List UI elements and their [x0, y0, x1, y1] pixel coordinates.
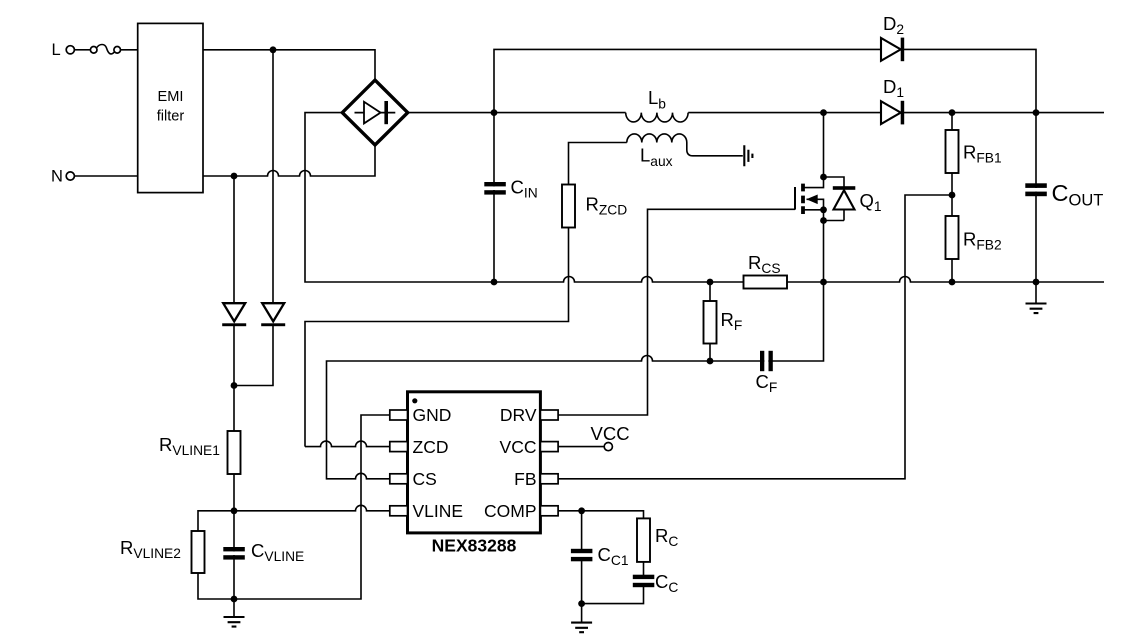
capacitor CVLINE: [222, 552, 246, 556]
wire RF branch: [709, 282, 711, 361]
wire Q1 source to bottom rail: [823, 210, 825, 282]
wire GND pin dropper to ground node: [234, 415, 390, 599]
wire GND node to ground: [233, 599, 235, 617]
fuse circle left: [90, 47, 97, 54]
node Q1 diode anode: [820, 217, 827, 224]
svg-text:VLINE: VLINE: [413, 501, 464, 521]
pin VLINE stub: [390, 506, 408, 516]
inductor Laux arcs: [627, 134, 687, 143]
wire FB net: pin right riser up to divider tap: [558, 195, 952, 479]
diode D2: [881, 38, 901, 61]
wire RVLINE2 branch: [198, 511, 234, 599]
pin CS stub: [390, 474, 408, 484]
svg-text:NEX83288: NEX83288: [432, 536, 517, 556]
svg-text:DRV: DRV: [500, 405, 537, 425]
ground (center, under CC1): [571, 623, 592, 633]
wire bridge right corner to DC rail: [407, 112, 625, 114]
capacitor CC: [642, 579, 646, 585]
wire CIN riser and top DC rail through D2: [494, 49, 1036, 112]
wire diode cathodes join: [234, 324, 273, 386]
mosfet Q1 body diode bar: [833, 186, 856, 190]
node CVLINE bottom ground: [231, 596, 238, 603]
wire Q1 source lead: [803, 209, 824, 211]
bridge inner diode line: [355, 112, 396, 114]
wire N dropper to diode anode: [233, 176, 235, 303]
node L-EMI junction: [270, 46, 277, 53]
pin ZCD stub: [390, 442, 408, 452]
svg-text:CS: CS: [413, 469, 437, 489]
node VLINE: [231, 507, 238, 514]
svg-text:filter: filter: [157, 108, 185, 124]
bridge inner diode bar: [384, 101, 388, 124]
resistor RFB2: [946, 216, 959, 259]
node D2 rail-COUT top: [1033, 109, 1040, 116]
resistor RVLINE2: [192, 531, 205, 573]
node Q1 source on rail: [820, 279, 827, 286]
wire N terminal to EMI filter: [75, 175, 138, 177]
resistor RCS: [744, 276, 788, 289]
inductor Lb arcs: [626, 113, 688, 122]
wire CS net: pin to riser to RF bottom and CF: [327, 282, 824, 479]
wire COUT branch: [1035, 113, 1037, 282]
wire CIN vertical: [493, 113, 495, 282]
mosfet Q1 body diode triangle: [834, 190, 855, 209]
bridge rectifier diamond: [342, 80, 407, 145]
ground (right, under COUT): [1026, 304, 1047, 314]
wire COUT ground lead: [1035, 282, 1037, 304]
node D1-RFB1: [949, 109, 956, 116]
IC pin1 dot: [412, 398, 417, 403]
pin COMP stub: [540, 506, 558, 516]
node N-EMI junction: [231, 173, 238, 180]
wire RC CC branch down and to ground node: [582, 518, 644, 622]
EMI filter box: [138, 23, 203, 192]
wire Q1 body lead: [807, 199, 824, 210]
chassis ground after Laux: [744, 145, 752, 166]
capacitor CF: [764, 352, 768, 370]
mosfet Q1 gate bar: [794, 187, 796, 210]
wire bridge left corner to bottom rail with hops: [305, 113, 1104, 282]
node bridge output / CIN top: [491, 109, 498, 116]
svg-text:EMI: EMI: [158, 89, 184, 105]
node Lb-D1-Q1 drain: [820, 109, 827, 116]
node Q1 source lead: [820, 206, 827, 213]
svg-text:GND: GND: [413, 405, 452, 425]
wire VCC pin to terminal: [558, 446, 604, 448]
resistor RC: [637, 518, 650, 562]
node FB divider tap: [949, 192, 956, 199]
svg-text:ZCD: ZCD: [413, 437, 449, 457]
pin DRV stub: [540, 410, 558, 420]
diode DN1 (left, down): [223, 303, 245, 321]
capacitor CIN: [486, 187, 504, 191]
wire N rail with hops to bridge bottom: [203, 145, 375, 176]
resistor RFB1: [946, 130, 959, 173]
pin FB stub: [540, 474, 558, 484]
wire CC1 branch: [581, 511, 583, 604]
terminal N: [66, 172, 74, 180]
wire L rail from EMI filter to bridge top: [203, 50, 375, 81]
wire Q1 drain riser: [823, 113, 825, 177]
svg-text:VCC: VCC: [500, 437, 537, 457]
svg-text:L: L: [52, 41, 61, 59]
wire fuse to EMI filter: [121, 49, 138, 51]
wire VLINE pin to node: [234, 505, 390, 511]
diode DN2 (right, down): [262, 303, 284, 321]
fuse F1 s-curve: [97, 45, 114, 54]
capacitor COUT: [1027, 188, 1045, 192]
resistor RF: [704, 301, 717, 344]
wire RFB1 branch: [951, 113, 953, 195]
node RF bottom CF: [707, 358, 714, 365]
terminal VCC circle: [604, 443, 612, 451]
wire DC rail after Lb: [688, 112, 1104, 114]
wire L dropper to diode anode: [272, 50, 274, 303]
wire Q1 drain to body diode top: [824, 177, 845, 187]
IC U1 NEX83288 body: [408, 392, 541, 533]
pin GND stub: [390, 410, 408, 420]
mosfet Q1 body arrow: [806, 195, 817, 205]
mosfet Q1 channel segments: [801, 184, 805, 214]
resistor RZCD: [562, 185, 575, 228]
wire L terminal to fuse: [75, 49, 91, 51]
node RF top on rail: [707, 279, 714, 286]
node Q1 drain-diode: [820, 174, 827, 181]
capacitor CC1: [580, 553, 584, 559]
node CIN bottom: [491, 279, 498, 286]
IC pin labels: [413, 405, 537, 521]
node RFB2 bottom on rail: [949, 279, 956, 286]
wire Q1 body diode anode: [824, 210, 845, 221]
node CC1 bottom ground: [578, 600, 585, 607]
svg-text:FB: FB: [514, 469, 536, 489]
diode D1: [881, 101, 901, 124]
pin VCC stub: [540, 442, 558, 452]
fuse circle right: [114, 47, 121, 54]
wire VLINE node through RVLINE1: [233, 386, 235, 511]
terminal L: [66, 46, 74, 54]
bridge inner diode triangle: [364, 102, 381, 124]
wire COMP net: [558, 511, 644, 519]
svg-text:VCC: VCC: [591, 423, 630, 444]
node diode join VLINE1 top: [231, 382, 238, 389]
wire gate from DRV pin: [558, 209, 795, 415]
node COMP-CC1: [578, 507, 585, 514]
svg-text:COMP: COMP: [484, 501, 537, 521]
wire RFB2 branch: [951, 195, 953, 282]
wire Q1 drain lead into channel: [803, 177, 824, 188]
resistor RVLINE1: [228, 431, 241, 474]
wire CVLINE branch: [233, 511, 235, 599]
svg-text:N: N: [51, 168, 63, 186]
node COUT bottom on rail: [1033, 279, 1040, 286]
ground (left, under CVLINE node): [224, 617, 245, 627]
wire Laux right end to chassis ground: [687, 143, 743, 156]
wire Laux left lead through RZCD down and over to ZCD pin: [305, 143, 627, 447]
